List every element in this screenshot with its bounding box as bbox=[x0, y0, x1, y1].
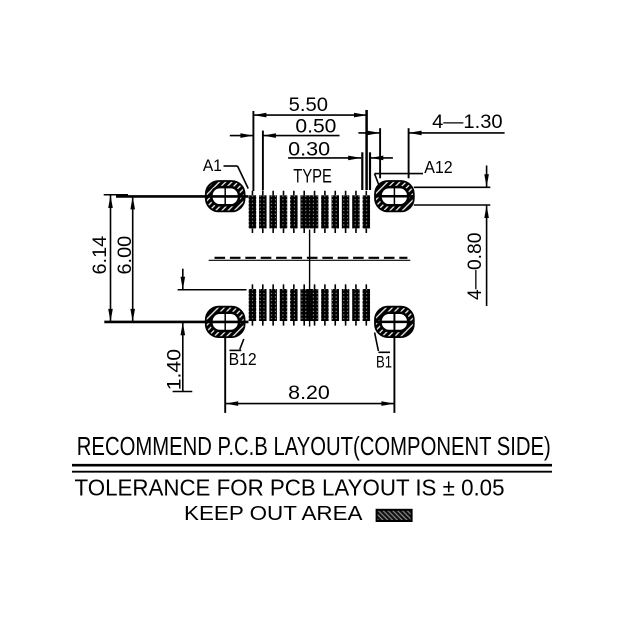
extension lines 0.30 (pad A12 edges) bbox=[361, 152, 363, 190]
pad A4 bbox=[280, 195, 288, 228]
pad A5 bbox=[290, 195, 298, 228]
pad A merged slot6-7 bbox=[300, 195, 318, 228]
pad A3 bbox=[269, 195, 277, 228]
pad A8 bbox=[332, 195, 340, 228]
svg-text:8.20: 8.20 bbox=[288, 383, 330, 404]
svg-text:6.00: 6.00 bbox=[115, 236, 136, 275]
hole bottom edge line bbox=[414, 204, 491, 206]
mounting pad oval A1 side (top-left) bbox=[206, 181, 245, 211]
pad B merged slot6-7 bbox=[300, 289, 318, 321]
pad A11 bbox=[363, 195, 371, 228]
1.40 end tick bbox=[173, 391, 193, 393]
mounting pad oval B1 side (bottom-right) bbox=[375, 307, 414, 337]
pad B2 bbox=[259, 289, 267, 321]
0.50 outside arrow right with tail bbox=[263, 135, 340, 137]
pad B9 bbox=[342, 289, 350, 321]
leader B1 bbox=[375, 333, 379, 352]
0.50 outside arrow left bbox=[230, 135, 254, 137]
pad B7 bbox=[321, 289, 329, 321]
extension line 8.20 left (from B12 oval) bbox=[224, 337, 226, 413]
svg-text:TYPE: TYPE bbox=[293, 167, 332, 188]
pad A7 bbox=[321, 195, 329, 228]
svg-text:TOLERANCE FOR PCB LAYOUT I: TOLERANCE FOR PCB LAYOUT IS ± 0.05 bbox=[75, 475, 505, 501]
title underline 1 bbox=[72, 464, 552, 467]
dimension line 5.50 bbox=[253, 114, 367, 116]
hole top edge line bbox=[414, 186, 491, 188]
pad A9 bbox=[342, 195, 350, 228]
vertical centerline between rows bbox=[309, 230, 311, 327]
dimension line 6.00 bbox=[132, 196, 134, 322]
4-0.80 lower outside arrow with tail bbox=[486, 205, 488, 306]
pad B3 bbox=[269, 289, 277, 321]
thin solid mid line bbox=[209, 259, 411, 261]
svg-text:A1: A1 bbox=[203, 156, 222, 175]
mounting pad oval A12 side (top-right) bbox=[375, 181, 414, 211]
svg-text:1.40: 1.40 bbox=[164, 349, 185, 390]
4-1.30 outside arrow left bbox=[358, 132, 380, 134]
extension line 8.20 right (from B1 oval center) bbox=[393, 312, 395, 413]
keep out area hatch swatch bbox=[377, 510, 412, 521]
svg-text:4—1.30: 4—1.30 bbox=[432, 112, 503, 133]
pad A2 bbox=[259, 195, 267, 228]
1.40 lower outside arrow with tail bbox=[182, 322, 184, 391]
svg-text:4—0.80: 4—0.80 bbox=[465, 233, 486, 300]
pad B11 bbox=[363, 289, 371, 321]
top extension line for 6.14 bbox=[104, 194, 128, 196]
leader B12 bbox=[240, 339, 244, 349]
pad A10 bbox=[352, 195, 360, 228]
extension line 5.50 right (pad A12 center) bbox=[365, 110, 368, 190]
pad A1 bbox=[249, 195, 257, 228]
0.30 outside arrow left with tail bbox=[288, 157, 361, 159]
dashed centerline (connector edge) bbox=[215, 257, 408, 259]
title underline 2 bbox=[72, 471, 552, 473]
pad center tick marks row A bbox=[252, 191, 366, 233]
svg-text:6.14: 6.14 bbox=[90, 235, 111, 274]
extension lines 4-1.30 (oval hole edges) bbox=[379, 128, 381, 178]
svg-text:A12: A12 bbox=[424, 157, 453, 177]
pad B4 bbox=[280, 289, 288, 321]
4-0.80 upper outside arrow bbox=[486, 166, 488, 188]
1.40 upper outside arrow bbox=[182, 269, 184, 290]
dimension line 8.20 bbox=[225, 403, 394, 405]
extension line 5.50 left (pad A1 center) bbox=[252, 111, 254, 191]
extension line B-pad top bbox=[178, 289, 247, 291]
svg-text:0.50: 0.50 bbox=[295, 116, 336, 137]
svg-text:B1: B1 bbox=[376, 352, 392, 371]
pad B10 bbox=[352, 289, 360, 321]
0.30 outside arrow right with tail bbox=[370, 157, 393, 159]
svg-text:KEEP OUT AREA: KEEP OUT AREA bbox=[184, 502, 363, 525]
bottom leader line through B12 oval bbox=[104, 321, 248, 324]
top leader line through A1 oval (6.00 extension) bbox=[116, 195, 249, 198]
extension line 0.50 right (pad A2 center) bbox=[262, 131, 264, 191]
leader A1 bbox=[224, 165, 238, 167]
dimension line 6.14 bbox=[110, 195, 112, 322]
4-1.30 outside arrow right with tail bbox=[409, 132, 505, 134]
pad B8 bbox=[332, 289, 340, 321]
pad B1 bbox=[249, 289, 257, 321]
pad center tick marks row B bbox=[252, 284, 366, 325]
mounting pad oval B12 side (bottom-left) bbox=[206, 307, 245, 337]
pad B5 bbox=[290, 289, 298, 321]
svg-text:0.30: 0.30 bbox=[288, 139, 330, 160]
crosshair horizontal of top-right oval bbox=[375, 195, 415, 198]
crosshair horizontal of bottom-right oval bbox=[375, 321, 415, 324]
svg-text:RECOMMEND P.C.B LAYOUT(COMPO: RECOMMEND P.C.B LAYOUT(COMPONENT SIDE) bbox=[77, 431, 551, 461]
svg-text:5.50: 5.50 bbox=[289, 95, 328, 116]
svg-text:B12: B12 bbox=[229, 349, 257, 369]
leader A12 bbox=[375, 173, 424, 175]
